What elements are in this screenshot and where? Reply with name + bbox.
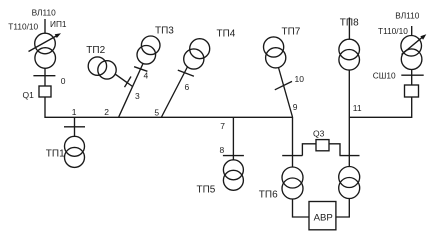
busbar tick at tie transformer — [340, 155, 360, 157]
svg-text:7: 7 — [220, 121, 225, 131]
busbar tick at ТП6 — [282, 155, 302, 157]
svg-text:2: 2 — [104, 107, 109, 117]
transformer ТП3 — [137, 36, 160, 64]
wire: feeder line node 2 to ТП3 — [119, 57, 146, 117]
svg-text:8: 8 — [220, 145, 225, 155]
svg-text:ТП4: ТП4 — [217, 29, 236, 40]
svg-text:ТП6: ТП6 — [259, 190, 278, 201]
svg-text:1: 1 — [72, 107, 77, 117]
wire: ТП2 branch to junction 3 — [113, 73, 133, 87]
disconnector tick 4 — [134, 67, 147, 72]
transformer ТП5 — [223, 160, 243, 191]
wire: transformer to busbar 0 — [44, 68, 46, 86]
transformer ТП1 — [65, 136, 85, 167]
svg-text:4: 4 — [144, 71, 149, 81]
breaker Q1 — [39, 86, 51, 97]
busbar tick at ТП5 — [223, 155, 244, 157]
transformer at tie (right) — [339, 167, 360, 199]
transformer Т110/10 left (two windings) — [35, 33, 56, 68]
svg-text:ТП5: ТП5 — [197, 185, 216, 196]
regulation arrow through right transformer — [402, 34, 427, 54]
busbar tick at ТП1 — [64, 126, 85, 128]
wire: tie bridge right drop — [329, 144, 340, 156]
svg-text:Т110/10: Т110/10 — [378, 26, 408, 36]
disconnector tick 6 — [178, 70, 194, 76]
svg-text:ТП7: ТП7 — [282, 27, 301, 38]
svg-text:Q1: Q1 — [23, 90, 35, 100]
svg-text:Т110/10: Т110/10 — [8, 22, 38, 32]
wire: Q1 down and main bus to node 9 — [45, 97, 293, 117]
wire: tie transformer to АВР — [336, 199, 349, 218]
svg-text:ИП1: ИП1 — [50, 19, 67, 29]
transformer ТП2 — [88, 57, 116, 79]
svg-text:3: 3 — [135, 91, 140, 101]
busbar СШ10 — [401, 74, 423, 76]
svg-text:6: 6 — [185, 82, 190, 92]
wire: ТП8 down through node 11 to tie busbar — [348, 70, 350, 167]
svg-text:10: 10 — [295, 74, 305, 84]
device box АВР — [309, 202, 336, 230]
svg-text:ВЛ110: ВЛ110 — [395, 10, 419, 20]
svg-text:0: 0 — [61, 76, 66, 86]
wire: feeder node 1 to ТП1 — [74, 117, 76, 137]
wire: ТП8 incoming stub — [348, 18, 350, 40]
svg-text:АВР: АВР — [314, 212, 333, 223]
busbar 0 — [33, 75, 55, 77]
svg-text:ТП3: ТП3 — [155, 25, 174, 36]
wire: feeder line node 9 to ТП7 — [278, 64, 293, 117]
svg-text:СШ10: СШ10 — [373, 70, 396, 80]
svg-text:ТП2: ТП2 — [86, 45, 105, 56]
transformer ТП8 — [339, 39, 360, 70]
disconnector tick on ТП2 branch — [125, 77, 132, 88]
breaker at right source — [405, 85, 419, 97]
svg-text:11: 11 — [353, 103, 362, 113]
svg-text:9: 9 — [293, 102, 298, 112]
wire: right transformer to СШ10 and breaker — [411, 69, 413, 85]
disconnector tick 10 — [275, 81, 292, 89]
wire: feeder line node 5 to ТП4 — [162, 60, 192, 117]
breaker Q3 — [316, 140, 329, 151]
wire: feeder node 7 to ТП5 — [232, 117, 234, 160]
svg-text:ТП1: ТП1 — [46, 149, 65, 160]
svg-text:ВЛ110: ВЛ110 — [32, 7, 56, 17]
wire: tie bridge left riser — [302, 144, 316, 156]
wire: ТП6 to АВР — [293, 199, 310, 217]
svg-text:Q3: Q3 — [313, 128, 325, 138]
svg-text:ТП8: ТП8 — [340, 18, 359, 29]
wire: right bus from node 11 up to right source breaker — [349, 97, 412, 117]
transformer ТП6 — [282, 167, 303, 199]
regulation arrow through left transformer — [29, 33, 62, 51]
transformer ТП7 — [264, 37, 286, 68]
transformer ТП4 — [184, 39, 210, 69]
wire: node 9 down to ТП6 — [292, 117, 294, 167]
svg-text:5: 5 — [154, 107, 159, 117]
transformer Т110/10 right — [401, 36, 422, 70]
wire: right source incoming stub — [411, 26, 413, 36]
wire: ИП1 incoming overhead line stub — [44, 19, 46, 34]
